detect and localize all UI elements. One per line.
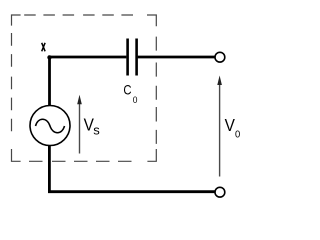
dashed box bottom-left corner [12, 149, 21, 161]
svg-text:0: 0 [235, 129, 241, 141]
capacitor C0 left plate [126, 39, 129, 76]
label X [42, 43, 45, 52]
source sine wave [36, 119, 65, 133]
Vo reference arrow shaft [219, 84, 221, 177]
Vs reference arrow shaft [79, 103, 81, 154]
wire node X down to source [48, 56, 51, 106]
Vs arrowhead [77, 95, 82, 104]
wire source bottom to lower terminal [49, 145, 214, 191]
dashed box top-left corner [12, 15, 21, 26]
output terminal lower [215, 187, 225, 197]
capacitor C0 right plate [135, 39, 138, 76]
svg-text:0: 0 [133, 95, 138, 106]
svg-text:s: s [93, 123, 100, 138]
source Vs circle [30, 106, 70, 146]
dashed box top-right corner [147, 15, 156, 26]
node X junction dot [47, 55, 51, 59]
dashed box bottom-right corner [147, 149, 156, 161]
dashed box bottom edge [29, 160, 132, 162]
svg-text:V: V [225, 116, 235, 135]
output terminal upper [215, 52, 225, 62]
svg-text:C: C [123, 83, 131, 98]
dashed box right edge [155, 37, 157, 144]
dashed box left edge [11, 33, 13, 131]
Vo arrowhead [217, 76, 222, 86]
wire capacitor to output terminal [138, 56, 215, 59]
wire node X to capacitor [48, 56, 126, 59]
dashed box top edge [24, 14, 133, 16]
